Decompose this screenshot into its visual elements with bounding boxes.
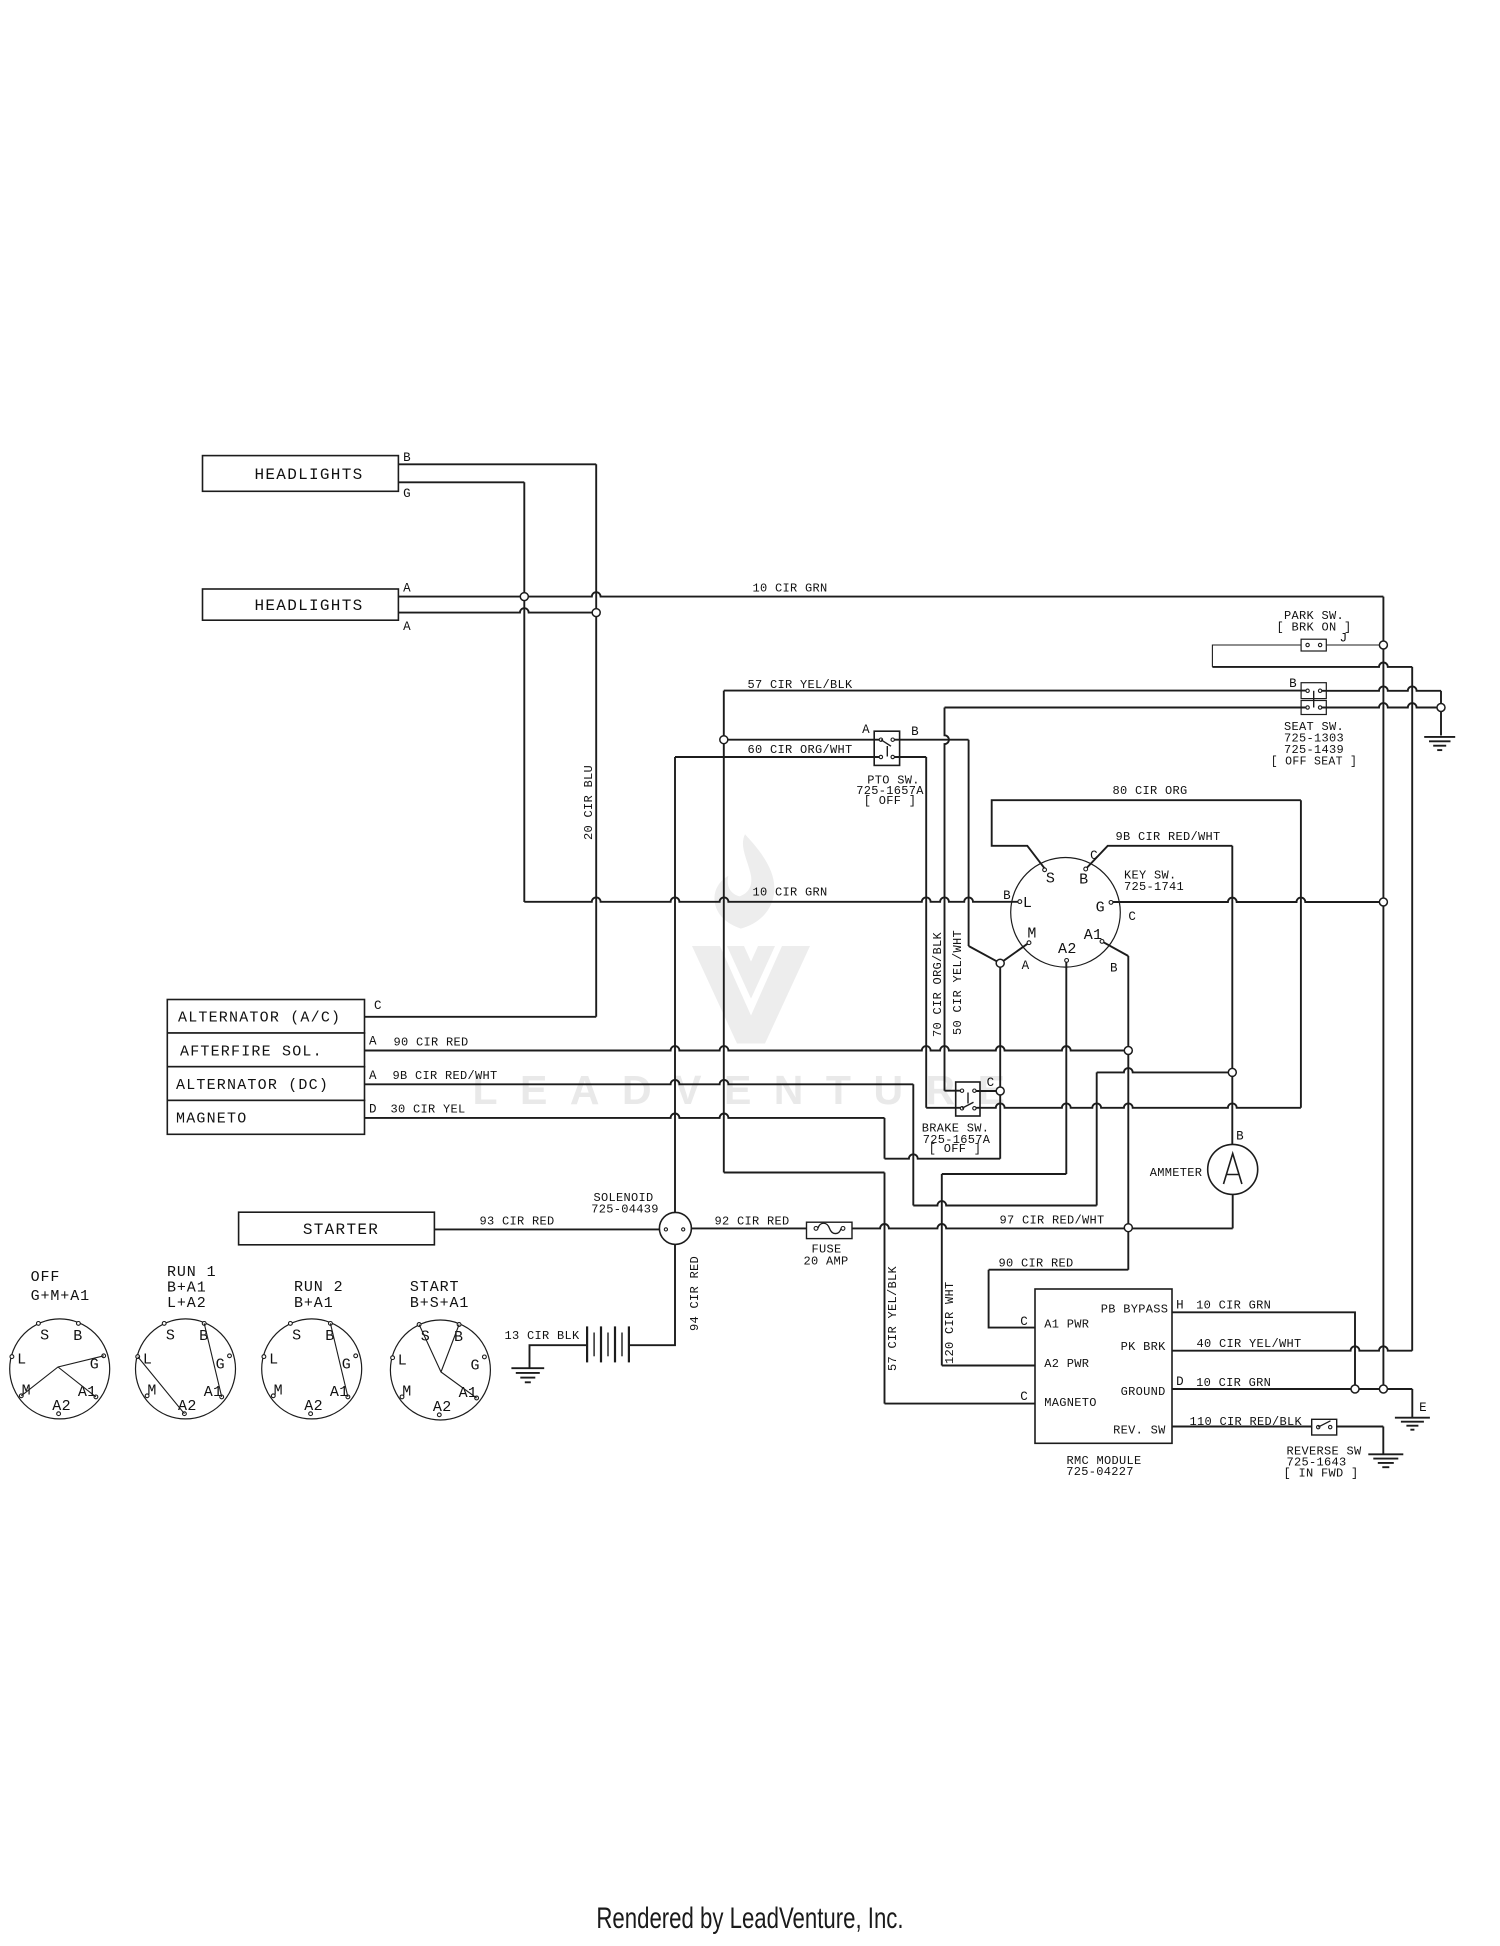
svg-text:[ OFF SEAT ]: [ OFF SEAT ] bbox=[1271, 756, 1357, 769]
wire 20 CIR BLU vertical (headlights feed / alternator AC) bbox=[595, 464, 597, 612]
ground (reverse switch) bbox=[1368, 1453, 1403, 1455]
wire 90 CIR RED from AFTERFIRE SOL bbox=[365, 1046, 1129, 1050]
svg-text:OFF: OFF bbox=[31, 1269, 61, 1286]
svg-text:725-04227: 725-04227 bbox=[1066, 1465, 1134, 1479]
svg-text:Rendered by LeadVenture, Inc.: Rendered by LeadVenture, Inc. bbox=[596, 1901, 903, 1935]
svg-text:10 CIR GRN: 10 CIR GRN bbox=[752, 886, 827, 900]
alternator DC box bbox=[167, 1067, 364, 1101]
svg-text:A: A bbox=[1022, 959, 1030, 973]
node park switch junction bbox=[1379, 641, 1387, 649]
svg-text:D: D bbox=[369, 1103, 377, 1117]
ground E (RMC) bbox=[1395, 1417, 1430, 1419]
svg-text:G: G bbox=[216, 1356, 225, 1373]
svg-text:B: B bbox=[1236, 1130, 1244, 1144]
wire ammeter top bbox=[1231, 1072, 1233, 1144]
wire RMC PK BRK 40 CIR YEL/WHT bbox=[1172, 1346, 1412, 1350]
svg-text:9B CIR RED/WHT: 9B CIR RED/WHT bbox=[1115, 830, 1220, 844]
svg-text:HEADLIGHTS: HEADLIGHTS bbox=[254, 597, 363, 615]
PTO switch bbox=[874, 731, 899, 765]
svg-text:B: B bbox=[1289, 677, 1297, 691]
node key G / 10 CIR GRN junction bbox=[1379, 898, 1387, 906]
wire headlight2 pin A lower bbox=[398, 608, 596, 612]
svg-text:H: H bbox=[1176, 1299, 1184, 1313]
svg-text:D: D bbox=[1176, 1375, 1184, 1389]
svg-text:S: S bbox=[1046, 871, 1055, 888]
afterfire box bbox=[167, 1033, 364, 1067]
park switch PARK SW bbox=[1301, 639, 1326, 651]
headlights box 2 bbox=[203, 589, 399, 620]
svg-text:G: G bbox=[1096, 900, 1105, 917]
svg-text:A: A bbox=[403, 620, 411, 634]
svg-text:A1: A1 bbox=[78, 1384, 97, 1401]
wire 92 CIR RED solenoid to fuse bbox=[691, 1227, 806, 1229]
svg-text:B: B bbox=[73, 1328, 82, 1345]
svg-text:MAGNETO: MAGNETO bbox=[176, 1111, 247, 1128]
svg-text:B+S+A1: B+S+A1 bbox=[410, 1295, 469, 1312]
svg-text:A1: A1 bbox=[1084, 927, 1103, 944]
wire 10 CIR GRN mid run to key L pin bbox=[524, 897, 1020, 901]
svg-text:9B CIR RED/WHT: 9B CIR RED/WHT bbox=[392, 1069, 497, 1083]
svg-text:AMMETER: AMMETER bbox=[1150, 1166, 1203, 1180]
wire PTO pin B kill line to key M junction bbox=[893, 739, 969, 741]
svg-text:10 CIR GRN: 10 CIR GRN bbox=[1196, 1376, 1271, 1390]
ground (battery 13 CIR BLK) bbox=[511, 1367, 544, 1369]
svg-text:L: L bbox=[398, 1353, 407, 1370]
node headlight A / 20 CIR BLU junction bbox=[592, 609, 600, 617]
wire 57/60 vertical x=724 bbox=[723, 691, 725, 1173]
svg-text:G: G bbox=[342, 1356, 351, 1373]
RMC module box RMC MODULE 725-04227 bbox=[1035, 1289, 1172, 1443]
node 97 CIR RED/WHT junction bbox=[1124, 1224, 1132, 1232]
wire 57 CIR YEL/BLK lower path to RMC MAGNETO bbox=[724, 1172, 885, 1174]
svg-text:G+M+A1: G+M+A1 bbox=[31, 1288, 90, 1305]
wire brake top right pin to junction bbox=[974, 1090, 1000, 1092]
alternator AC box bbox=[167, 1000, 364, 1034]
svg-text:C: C bbox=[374, 999, 382, 1013]
wire 93 CIR RED starter to solenoid bbox=[434, 1228, 659, 1230]
svg-text:C: C bbox=[987, 1076, 995, 1090]
wire 50 CIR YEL/WHT: seat lower to brake switch bbox=[945, 707, 1308, 709]
svg-text:A2: A2 bbox=[1058, 941, 1077, 958]
svg-text:B: B bbox=[1110, 962, 1118, 976]
svg-text:B+A1: B+A1 bbox=[294, 1295, 334, 1312]
svg-text:PK BRK: PK BRK bbox=[1121, 1340, 1167, 1354]
headlights box 1 bbox=[203, 456, 399, 492]
wire headlight1 pin B to 20 CIR BLU vertical bbox=[398, 463, 596, 465]
magneto box bbox=[167, 1100, 364, 1134]
svg-text:57 CIR YEL/BLK: 57 CIR YEL/BLK bbox=[886, 1265, 900, 1371]
svg-text:L: L bbox=[1023, 895, 1032, 912]
wire 120 CIR WHT: key A2 to RMC A2 PWR bbox=[1065, 960, 1067, 1174]
svg-text:94 CIR RED: 94 CIR RED bbox=[688, 1256, 702, 1331]
svg-text:[ OFF ]: [ OFF ] bbox=[929, 1142, 982, 1156]
wire RMC PB BYPASS H 10 CIR GRN bbox=[1172, 1312, 1355, 1389]
svg-text:93 CIR RED: 93 CIR RED bbox=[479, 1215, 554, 1229]
svg-text:A2: A2 bbox=[178, 1398, 197, 1415]
reverse switch REVERSE SW 725-1643 bbox=[1312, 1419, 1337, 1435]
svg-text:10 CIR GRN: 10 CIR GRN bbox=[1196, 1299, 1271, 1313]
key position diagram START bbox=[390, 1320, 490, 1420]
svg-text:A1 PWR: A1 PWR bbox=[1044, 1318, 1089, 1332]
svg-text:90 CIR RED: 90 CIR RED bbox=[393, 1036, 468, 1050]
svg-text:13 CIR BLK: 13 CIR BLK bbox=[504, 1329, 580, 1343]
svg-text:57 CIR YEL/BLK: 57 CIR YEL/BLK bbox=[747, 678, 853, 692]
node RMC H junction bbox=[1351, 1385, 1359, 1393]
node 60 CIR ORG/WHT junction bbox=[720, 736, 728, 744]
svg-text:C: C bbox=[1020, 1390, 1028, 1404]
key position diagram OFF bbox=[10, 1319, 110, 1419]
svg-text:C: C bbox=[1128, 910, 1136, 924]
wire key G pin to 10 CIR GRN vertical bbox=[1111, 898, 1383, 902]
svg-text:L: L bbox=[143, 1352, 152, 1369]
svg-text:B: B bbox=[1079, 871, 1088, 888]
wire PTO lower left to solenoid vertical bbox=[675, 756, 881, 758]
svg-text:G: G bbox=[470, 1357, 479, 1374]
node brake switch kill junction bbox=[996, 1087, 1004, 1095]
svg-text:ALTERNATOR (DC): ALTERNATOR (DC) bbox=[176, 1077, 329, 1094]
wire park switch left loop bbox=[1212, 645, 1301, 667]
wire park switch to junction bbox=[1326, 644, 1383, 646]
battery bbox=[586, 1326, 588, 1362]
solenoid SOLENOID 725-04439 bbox=[659, 1212, 691, 1244]
svg-text:RUN 2: RUN 2 bbox=[294, 1279, 344, 1296]
svg-text:20 CIR BLU: 20 CIR BLU bbox=[582, 765, 596, 840]
wire 30 CIR YEL from MAGNETO box bbox=[365, 1114, 885, 1118]
key switch KEY SW 725-1741 bbox=[1011, 858, 1121, 968]
node 90 CIR RED / key A1 junction bbox=[1124, 1047, 1132, 1055]
svg-text:PB BYPASS: PB BYPASS bbox=[1101, 1303, 1169, 1317]
svg-text:A2: A2 bbox=[304, 1398, 323, 1415]
svg-text:97 CIR RED/WHT: 97 CIR RED/WHT bbox=[999, 1214, 1104, 1228]
wire 9B CIR RED/WHT from ALTERNATOR DC bbox=[365, 1080, 914, 1084]
svg-text:HEADLIGHTS: HEADLIGHTS bbox=[254, 466, 363, 484]
svg-text:M: M bbox=[22, 1382, 31, 1399]
svg-text:ALTERNATOR (A/C): ALTERNATOR (A/C) bbox=[178, 1010, 341, 1027]
svg-text:B: B bbox=[911, 725, 919, 739]
wire seat ground drop bbox=[1440, 691, 1442, 736]
wire RMC REV SW 110 CIR RED/BLK bbox=[1172, 1426, 1312, 1428]
svg-text:RUN 1: RUN 1 bbox=[167, 1264, 217, 1281]
wire 57 CIR YEL/BLK top run to seat switch bbox=[724, 690, 1308, 692]
wire headlight1 pin G to ground vertical bbox=[398, 481, 524, 483]
wire seat switch upper right to ground drop bbox=[1320, 686, 1441, 690]
svg-text:L: L bbox=[269, 1352, 278, 1369]
svg-text:50 CIR YEL/WHT: 50 CIR YEL/WHT bbox=[951, 930, 965, 1035]
svg-text:M: M bbox=[147, 1382, 156, 1399]
wire 60 CIR ORG/WHT to PTO pin A bbox=[724, 739, 881, 741]
svg-text:30 CIR YEL: 30 CIR YEL bbox=[390, 1103, 465, 1117]
wire headlight2 pin A upper / 10 CIR GRN top run bbox=[398, 592, 1383, 596]
wire 94 CIR RED solenoid to battery bbox=[629, 1244, 675, 1345]
svg-text:L: L bbox=[17, 1352, 26, 1369]
svg-text:C: C bbox=[1020, 1315, 1028, 1329]
svg-text:B: B bbox=[454, 1329, 463, 1346]
wire 13 CIR BLK battery to ground bbox=[530, 1345, 588, 1368]
svg-text:J: J bbox=[1340, 632, 1348, 646]
node headlight A / ground junction bbox=[520, 593, 528, 601]
fuse FUSE 20 AMP bbox=[807, 1222, 853, 1238]
svg-text:110 CIR RED/BLK: 110 CIR RED/BLK bbox=[1190, 1415, 1303, 1429]
svg-text:C: C bbox=[1090, 849, 1098, 863]
svg-text:A2 PWR: A2 PWR bbox=[1044, 1357, 1089, 1371]
node key M kill junction bbox=[996, 959, 1004, 967]
svg-text:L+A2: L+A2 bbox=[167, 1295, 207, 1312]
key position diagram RUN 2 bbox=[262, 1319, 362, 1419]
svg-text:REV. SW: REV. SW bbox=[1113, 1424, 1166, 1438]
svg-text:[ IN FWD ]: [ IN FWD ] bbox=[1283, 1467, 1358, 1481]
starter box bbox=[239, 1212, 435, 1245]
svg-text:M: M bbox=[1027, 926, 1036, 943]
svg-text:GROUND: GROUND bbox=[1121, 1385, 1166, 1399]
svg-text:10 CIR GRN: 10 CIR GRN bbox=[752, 582, 827, 596]
svg-text:80 CIR ORG: 80 CIR ORG bbox=[1112, 784, 1187, 798]
svg-text:90 CIR RED: 90 CIR RED bbox=[998, 1257, 1073, 1271]
svg-text:START: START bbox=[410, 1279, 460, 1296]
svg-text:20 AMP: 20 AMP bbox=[803, 1255, 848, 1269]
svg-text:AFTERFIRE SOL.: AFTERFIRE SOL. bbox=[180, 1044, 323, 1061]
svg-text:B+A1: B+A1 bbox=[167, 1280, 207, 1297]
svg-text:A: A bbox=[369, 1069, 377, 1083]
wire M junction down to brake top bbox=[999, 963, 1001, 1091]
wire RMC GROUND D 10 CIR GRN to ground E bbox=[1172, 1388, 1412, 1390]
svg-text:A2: A2 bbox=[52, 1398, 71, 1415]
wire 9B CIR RED/WHT: key B to junction bbox=[1086, 846, 1233, 869]
key position diagram RUN 1 bbox=[136, 1319, 236, 1419]
svg-text:G: G bbox=[403, 487, 411, 501]
svg-text:M: M bbox=[274, 1382, 283, 1399]
svg-text:725-04439: 725-04439 bbox=[591, 1203, 659, 1217]
svg-text:M: M bbox=[402, 1383, 411, 1400]
wire seat switch lower right bbox=[1320, 703, 1441, 707]
wire ALTERNATOR AC pin C to 20 CIR BLU bbox=[365, 1016, 597, 1018]
svg-text:S: S bbox=[166, 1327, 175, 1344]
wire brake lower right run bbox=[974, 1103, 1301, 1107]
svg-text:92 CIR RED: 92 CIR RED bbox=[714, 1215, 789, 1229]
wire key A1 pin to 90 CIR RED vertical bbox=[1102, 941, 1128, 956]
node RMC D ground junction bbox=[1379, 1385, 1387, 1393]
wire 70 CIR ORG/BLK: PTO lower to brake switch bbox=[893, 756, 927, 758]
wire headlight ground vertical x=524 bbox=[523, 482, 525, 902]
svg-text:A: A bbox=[403, 582, 411, 596]
svg-text:60 CIR ORG/WHT: 60 CIR ORG/WHT bbox=[747, 743, 852, 757]
wire 90 CIR RED to RMC A1 PWR bbox=[989, 1269, 1129, 1271]
watermark logo bbox=[692, 834, 810, 1043]
svg-text:S: S bbox=[292, 1327, 301, 1344]
svg-text:A: A bbox=[369, 1035, 377, 1049]
svg-text:120 CIR WHT: 120 CIR WHT bbox=[943, 1281, 957, 1364]
wire key M pin to junction bbox=[1000, 943, 1029, 964]
svg-text:40 CIR YEL/WHT: 40 CIR YEL/WHT bbox=[1196, 1337, 1301, 1351]
seat switch SEAT SW bbox=[1301, 683, 1326, 699]
svg-text:B: B bbox=[403, 451, 411, 465]
svg-text:B: B bbox=[1003, 889, 1011, 903]
node seat switch ground junction bbox=[1437, 704, 1445, 712]
svg-text:70 CIR ORG/BLK: 70 CIR ORG/BLK bbox=[931, 931, 945, 1037]
svg-text:725-1741: 725-1741 bbox=[1124, 880, 1184, 894]
wire park/seat vertical x=1412 to PK BRK bbox=[1411, 667, 1413, 1351]
node 9B / ammeter junction bbox=[1228, 1068, 1236, 1076]
ground (seat switch) bbox=[1424, 736, 1455, 738]
wire ammeter bottom / 97 CIR RED/WHT bbox=[1232, 1195, 1234, 1229]
svg-text:[ OFF ]: [ OFF ] bbox=[864, 794, 917, 808]
wire solenoid vertical x=675 bbox=[674, 757, 676, 1212]
svg-text:MAGNETO: MAGNETO bbox=[1044, 1396, 1097, 1410]
wire magneto kill path junction to 30 CIR YEL bbox=[999, 1091, 1001, 1159]
svg-text:STARTER: STARTER bbox=[303, 1221, 379, 1239]
svg-text:A: A bbox=[862, 723, 870, 737]
wire 10 CIR GRN main vertical x=1383 bbox=[1382, 597, 1384, 1389]
ammeter bbox=[1208, 1144, 1258, 1194]
svg-text:S: S bbox=[40, 1327, 49, 1344]
svg-text:A2: A2 bbox=[433, 1399, 452, 1416]
wire 80 CIR ORG: key S to brake lower run bbox=[992, 800, 1301, 869]
brake switch BRAKE SW bbox=[956, 1082, 980, 1116]
svg-text:E: E bbox=[1419, 1401, 1427, 1415]
